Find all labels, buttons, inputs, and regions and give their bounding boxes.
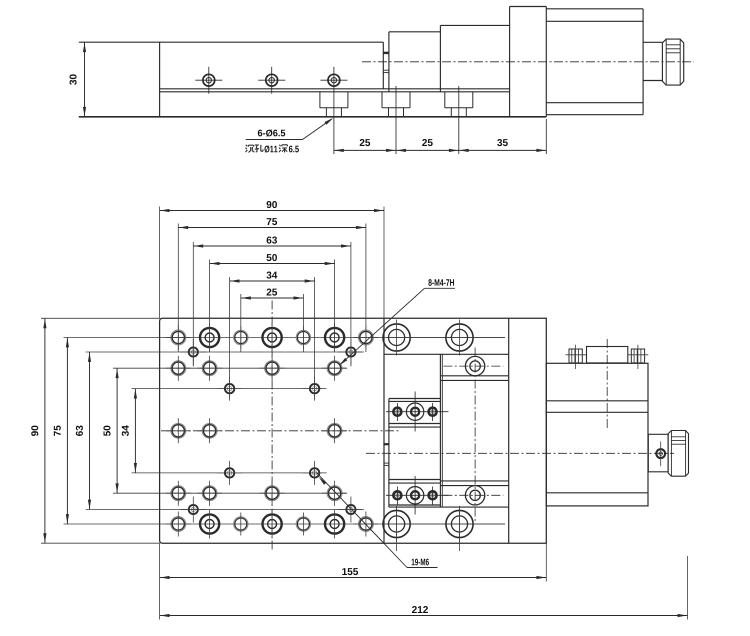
leader text diam 11: [264, 145, 277, 152]
plan view: left extension of table bottom edge: [41, 542, 160, 544]
side view: table left edge vertical at x=160: [159, 42, 161, 117]
table small tapped hole 34-pattern 2: [310, 384, 319, 393]
plan view: rail bottom edge: [389, 506, 509, 508]
dimension text 35: [497, 139, 508, 146]
plan left dimension 63: [89, 352, 91, 510]
side view: carriage right edge: [382, 42, 384, 89]
table M6 tapped hole 6: [327, 361, 342, 376]
plan view: knurled knob: [668, 431, 688, 477]
plan view: rail side hole at y=495.3: [465, 486, 484, 505]
base counterbore mounting hole 3: [383, 510, 410, 537]
table counterbore hole 4: [200, 514, 219, 533]
plan view: slider screws row top cross line: [386, 411, 449, 413]
table M4 tapped hole 4: [296, 517, 310, 531]
leader text depth 6.5: [289, 146, 299, 153]
side view: top face screw hole 3: [328, 74, 340, 86]
side view: bearing block C outline: [440, 24, 509, 26]
table small tapped hole 34-pattern 4: [310, 468, 319, 477]
plan left dimension 50: [116, 368, 118, 493]
plan view: rail side holes vertical centerline: [474, 348, 476, 523]
table M6 tapped hole 11: [202, 486, 217, 501]
plan view: slider screw middle top: [406, 403, 423, 420]
plan top dimension 34: [230, 280, 315, 282]
plan view: slider screw small right top: [429, 408, 437, 416]
plan view: rail top edge: [384, 353, 509, 355]
table corner M4 hole 4: [346, 505, 355, 514]
plan view: rail lower double lines: [440, 480, 508, 482]
plan view: slider screws row bottom cross line: [386, 494, 449, 496]
table small tapped hole 34-pattern 1: [225, 384, 234, 393]
plan view: coupling ticks: [383, 443, 389, 445]
label 19-M6 leader: [407, 567, 438, 569]
plan top dimension 75: [178, 227, 366, 229]
plan view: table horizontal centerline: [161, 430, 399, 432]
plan view: end block left edge: [508, 318, 510, 543]
plan view: motor body: [546, 363, 648, 506]
counterbore leader line and arrow: [246, 139, 303, 141]
side view: slider block B outline: [389, 31, 441, 33]
plan top dimension 25: [241, 297, 304, 299]
dimension 30 vertical dim line with arrows: [84, 42, 86, 117]
plan top dimension 50: [210, 263, 335, 265]
table M4 tapped hole 3: [234, 517, 248, 531]
plan view: connector jack screw right: [631, 349, 644, 363]
table M4 tapped hole 1: [234, 330, 248, 344]
dimension text 25 second: [422, 139, 432, 146]
table counterbore hole 6: [325, 514, 344, 533]
leader text counterbore chinese: shen: [279, 145, 280, 146]
base counterbore mounting hole 1: [383, 324, 410, 351]
plan view: slider screw small left top: [393, 408, 401, 416]
table corner M4 hole 3: [189, 505, 198, 514]
bottom dimension 155: [160, 577, 547, 579]
leader text counterbore chinese: chen: [246, 145, 247, 146]
leader text 6-diam6.5: [258, 129, 285, 136]
side view: base top double line upper: [160, 88, 510, 90]
side view: top face screw hole 2: [266, 74, 278, 86]
table M6 tapped hole 8: [202, 423, 217, 438]
plan view: hole row line y=493.25: [113, 492, 346, 494]
side view: rear shaft bushing: [643, 41, 662, 43]
plan view: hole row line y=509.5: [86, 509, 362, 511]
plan view: hole row line y=352: [86, 351, 362, 353]
plan left dimension 75: [66, 338, 68, 525]
table M6 tapped hole 3: [171, 361, 186, 376]
table M6 tapped hole 2: [359, 330, 374, 345]
plan view: bracket set screw: [656, 449, 665, 458]
table M6 tapped hole 7: [171, 423, 186, 438]
leader text counterbore chinese: kong: [255, 144, 259, 146]
table counterbore hole 2: [263, 328, 282, 347]
side view: knurled knob: [662, 39, 683, 85]
table M4 tapped hole 2: [296, 330, 310, 344]
table corner M4 hole 1: [189, 347, 198, 356]
bottom dimension 212: [160, 615, 688, 617]
side view dim extension lines for 25/25/35: [333, 94, 335, 154]
plan view: hole row line y=472.9: [132, 472, 323, 474]
table M6 tapped hole 1: [171, 330, 186, 345]
side view: motor body outline: [546, 8, 643, 10]
plan view: slider block horizontals bottom: [389, 479, 441, 481]
plan view: hole row line y=368.25: [113, 367, 346, 369]
plan view: slider block verticals: [388, 399, 390, 508]
plan view: rail side hole at y=366.1: [465, 356, 484, 375]
side view: counterbore boss 1: [319, 92, 321, 108]
plan view: table vertical centerline: [271, 301, 273, 552]
bottom dimension 155 extension lines: [159, 543, 161, 619]
label 8-M4-7H text: [428, 279, 454, 286]
plan view: screw axis centerline: [366, 452, 674, 454]
plan view: rail upper double lines: [440, 375, 508, 377]
table M6 tapped hole 4: [202, 361, 217, 376]
side view: end block D outline: [510, 6, 547, 8]
plan view: slider screw small left bottom: [393, 491, 401, 499]
side view: counterbore boss 2: [381, 92, 383, 108]
plan view: left extension of table top edge: [41, 317, 160, 319]
table small tapped hole 34-pattern 3: [225, 468, 234, 477]
side view: top face screw hole 1: [203, 74, 215, 86]
base mounting holes row centerlines: [386, 337, 505, 339]
plan view: hole row line y=388.6: [132, 388, 323, 390]
plan view: connector jack screw left: [569, 349, 582, 363]
plan view: knob bracket: [648, 434, 668, 472]
table counterbore hole 5: [263, 514, 282, 533]
plan view: slider right edge second line: [441, 354, 443, 507]
label 19-M6 text: [412, 559, 429, 566]
table M6 tapped hole 5: [265, 361, 280, 376]
plan view: connector housing: [587, 347, 628, 363]
plan view: base outline rectangle: [160, 318, 547, 543]
table corner M4 hole 2: [346, 347, 355, 356]
plan view: slider screw small right bottom: [429, 491, 437, 499]
plan top dimension 63: [193, 245, 351, 247]
side view: counterbore boss 3: [444, 92, 446, 108]
table M6 tapped hole 15: [359, 517, 374, 532]
plan top dimension 90: [160, 210, 384, 212]
dimension text 25 first: [360, 139, 370, 146]
bottom dimension 212 extension line right: [687, 556, 689, 620]
plan view: column extension lines: [159, 207, 161, 319]
table counterbore hole 3: [325, 328, 344, 347]
dimension 30 text: [70, 74, 77, 84]
plan left dimension 90: [44, 318, 46, 543]
side view: base top double line lower: [160, 91, 510, 93]
table M6 tapped hole 9: [327, 423, 342, 438]
plan view: table right edge: [383, 318, 385, 543]
plan view: slider block horizontals top: [389, 398, 441, 400]
table counterbore hole 1: [200, 328, 219, 347]
label 8-M4-7H leader: [425, 287, 456, 289]
base counterbore mounting hole 4: [446, 510, 473, 537]
table M6 tapped hole 13: [327, 486, 342, 501]
side view: coupling gap verticals and ticks: [388, 32, 390, 92]
base counterbore mounting hole 2: [446, 324, 473, 351]
table M6 tapped hole 10: [171, 486, 186, 501]
side view: base bottom line: [79, 116, 547, 118]
plan view: slider screw vertical center marks: [396, 403, 398, 421]
plan view: hole row line y=524: [64, 523, 506, 525]
plan view: connector centerline: [606, 339, 608, 428]
plan view: slider screw middle bottom: [406, 487, 423, 504]
plan view: hole row line y=337.5: [64, 337, 506, 339]
table M6 tapped hole 14: [171, 517, 186, 532]
side view chain dimension line 25+25+35: [334, 149, 546, 151]
table M6 tapped hole 12: [265, 486, 280, 501]
side view: carriage/base top outline: [79, 41, 384, 43]
side view: axis centerline: [362, 61, 694, 63]
plan left dimension 34: [134, 389, 136, 473]
